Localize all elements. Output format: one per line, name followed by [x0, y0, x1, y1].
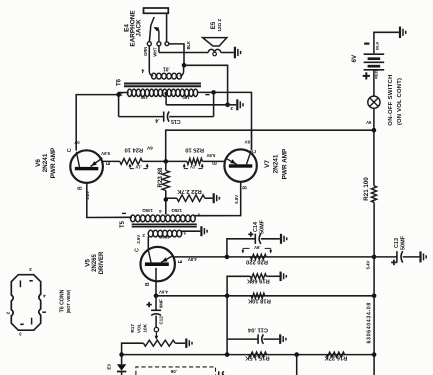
resistor R25: [187, 158, 202, 164]
label plus: [363, 75, 370, 77]
svg-text:C12: C12: [159, 316, 164, 325]
svg-text:.06: .06: [170, 369, 177, 374]
ground R22: [213, 193, 215, 203]
svg-text:4: 4: [141, 67, 144, 73]
dashed component box: [136, 367, 216, 375]
capacitor C11: [257, 334, 259, 344]
volume control wiper: [154, 327, 158, 331]
ground pin3: [236, 99, 238, 110]
svg-text:V6: V6: [35, 159, 42, 167]
svg-text:R17: R17: [130, 324, 135, 333]
resistor R20: [251, 254, 267, 259]
pin 1 lead: [198, 91, 214, 93]
svg-text:6V: 6V: [351, 54, 358, 62]
resistor R16: [326, 352, 344, 357]
wire V7 collector: [251, 130, 253, 150]
svg-text:R23 68: R23 68: [157, 167, 164, 188]
label 1: [42, 311, 46, 313]
svg-text:GRN: GRN: [143, 47, 148, 56]
svg-text:.6V: .6V: [254, 245, 261, 250]
svg-text:5.9V: 5.9V: [206, 153, 215, 158]
svg-text:B: B: [243, 186, 249, 190]
svg-text:C: C: [252, 150, 258, 154]
ground R19: [280, 272, 282, 282]
wire V7 base: [194, 182, 241, 216]
svg-text:6V: 6V: [366, 120, 371, 125]
svg-text:3: 3: [29, 267, 32, 272]
svg-text:(ON VOL CONT): (ON VOL CONT): [397, 78, 403, 125]
label + C14: [248, 233, 253, 235]
jack terminal GRN: [147, 42, 151, 46]
svg-text:630640434-08: 630640434-08: [366, 302, 372, 343]
svg-text:R22 2.7K: R22 2.7K: [176, 188, 201, 194]
svg-text:.1V: .1V: [135, 165, 141, 170]
pin 2 lead: [119, 93, 129, 117]
svg-text:5.8V: 5.8V: [234, 195, 239, 204]
capacitor C14: [227, 239, 255, 257]
wire BLK sleeve: [169, 44, 184, 65]
T5 core: [132, 223, 197, 225]
svg-text:JACK: JACK: [136, 19, 143, 37]
voltage bracket .1V left: [130, 168, 134, 170]
jack terminal sleeve BLK: [165, 42, 169, 46]
svg-text:50MF: 50MF: [260, 219, 266, 234]
T6 core: [124, 83, 201, 85]
node R15 junction: [225, 352, 230, 357]
label + C13: [391, 261, 397, 263]
resistor R15: [249, 352, 267, 357]
svg-text:R15 1.5K: R15 1.5K: [244, 355, 269, 361]
wire column to bottom: [373, 257, 375, 375]
voltage bracket .6V: [243, 247, 250, 249]
wire pin1 to V7 collector: [214, 92, 252, 149]
on-off switch: [368, 96, 380, 108]
svg-text:BLK: BLK: [186, 41, 191, 49]
capacitor C13: [374, 256, 396, 258]
node R19/C11 junction: [225, 294, 230, 299]
svg-text:BLK: BLK: [374, 41, 379, 49]
T5 primary winding: [148, 230, 153, 237]
resistor R24: [120, 158, 143, 164]
node junction: [294, 352, 299, 357]
ground battery: [399, 27, 401, 39]
resistor R19: [227, 276, 250, 296]
svg-text:3: 3: [230, 105, 233, 111]
speaker E5 cone: [203, 38, 227, 46]
T5 primary left lead: [147, 237, 149, 250]
svg-text:C13: C13: [394, 238, 400, 248]
svg-text:DRIVER: DRIVER: [99, 251, 105, 274]
transistor V5: [141, 247, 175, 281]
resistor R22: [166, 197, 177, 199]
node junction: [225, 103, 230, 108]
svg-text:R18 10K: R18 10K: [247, 298, 271, 304]
svg-text:4.6V: 4.6V: [159, 290, 168, 295]
speaker voice coil: [208, 49, 214, 52]
wire WHT terminal to speaker: [158, 46, 160, 53]
svg-text:135Ω: 135Ω: [142, 208, 153, 213]
svg-text:R24 10: R24 10: [124, 146, 143, 152]
wire pot left: [122, 343, 144, 354]
svg-text:.01: .01: [163, 65, 170, 71]
svg-text:B: B: [78, 186, 84, 190]
wire speaker to ground: [221, 52, 234, 54]
ground R17: [185, 338, 187, 348]
svg-text:PWR AMP: PWR AMP: [282, 148, 289, 179]
jack contact arm: [149, 17, 154, 42]
svg-text:T6 CONN: T6 CONN: [59, 289, 65, 312]
svg-text:T5: T5: [120, 220, 126, 228]
transistor V6: [70, 150, 103, 183]
wire V6 base: [87, 183, 132, 218]
voltage bracket .1V right: [184, 168, 188, 170]
svg-text:5.9V: 5.9V: [101, 151, 110, 156]
svg-text:2N241: 2N241: [273, 154, 280, 173]
node E3 junction: [119, 352, 124, 357]
svg-text:2: 2: [5, 311, 10, 314]
diode E3: [121, 355, 123, 365]
svg-text:ON-OFF SWITCH: ON-OFF SWITCH: [388, 74, 394, 125]
svg-text:C: C: [135, 248, 141, 252]
capacitor C15: [163, 112, 165, 122]
ground C13: [419, 251, 421, 262]
label pin 1: [205, 94, 209, 96]
ground C11: [279, 334, 281, 344]
jack terminal WHT: [157, 42, 161, 46]
node junction: [182, 63, 187, 68]
T6 center tap to ground: [164, 92, 167, 95]
svg-text:2: 2: [120, 91, 123, 97]
svg-text:50MF: 50MF: [401, 235, 407, 250]
svg-text:6MF: 6MF: [159, 299, 164, 308]
transformer T6 secondary winding: [148, 46, 150, 72]
svg-text:135Ω: 135Ω: [171, 208, 182, 213]
svg-text:R20 220: R20 220: [246, 259, 268, 265]
node junction pin1: [211, 90, 216, 95]
wire switch to 6V rail: [373, 108, 375, 130]
svg-text:190: 190: [182, 95, 190, 100]
svg-text:600Ω: 600Ω: [158, 234, 169, 239]
svg-text:T6: T6: [117, 78, 123, 86]
node junction pin2: [116, 92, 121, 97]
svg-text:6V: 6V: [146, 144, 153, 150]
svg-text:VOL: VOL: [137, 323, 142, 333]
connector pin marks: [19, 280, 21, 287]
wire base line: [156, 295, 374, 297]
battery 6V: [364, 53, 385, 55]
svg-text:4: 4: [43, 294, 46, 299]
svg-text:2N265: 2N265: [92, 254, 98, 272]
svg-text:WHT: WHT: [153, 47, 158, 57]
wire V6 collector: [76, 95, 118, 151]
earphone jack E4 body: [144, 8, 169, 13]
label + C12: [146, 304, 151, 306]
svg-text:.1V: .1V: [190, 165, 196, 170]
svg-text:5.4V: 5.4V: [366, 260, 371, 269]
svg-text:B: B: [145, 282, 151, 286]
capacitor C12: [155, 296, 157, 310]
wire V5 base: [155, 268, 157, 296]
ground T5: [200, 226, 202, 236]
resistor R21: [371, 186, 376, 203]
svg-text:V5: V5: [84, 259, 91, 267]
wire C15: [119, 116, 164, 118]
wire supply column: [373, 130, 375, 186]
node 6V junction: [164, 159, 169, 164]
wire 6V rail: [166, 130, 374, 161]
svg-text:190: 190: [140, 95, 148, 100]
T5 primary right lead to ground: [182, 231, 201, 234]
label minus: [364, 42, 369, 44]
wire V6 emitter: [102, 160, 120, 162]
wire R19 to ground: [266, 275, 279, 277]
transistor V7: [224, 149, 256, 181]
capacitor at box edge: [218, 371, 220, 375]
ground speaker: [234, 47, 236, 59]
node V5 base: [154, 294, 159, 299]
svg-text:10K: 10K: [143, 323, 148, 332]
label pin 1: [122, 212, 126, 214]
node 5.4V junction: [372, 255, 377, 260]
svg-text:C11 .04: C11 .04: [247, 327, 268, 333]
T5 secondary winding: [130, 215, 135, 222]
node C14 junction: [225, 255, 230, 260]
svg-text:.4: .4: [155, 117, 159, 123]
svg-text:R21 100: R21 100: [363, 177, 370, 201]
T6 primary winding: [128, 89, 132, 96]
wire battery to switch: [373, 70, 375, 96]
svg-text:C15: C15: [171, 118, 181, 124]
svg-text:R25 10: R25 10: [185, 146, 204, 152]
node at supply column: [372, 294, 377, 299]
node junction: [372, 352, 377, 357]
svg-text:2N241: 2N241: [42, 153, 49, 172]
svg-text:12Ω Z: 12Ω Z: [217, 19, 222, 32]
svg-text:(BOT VIEW): (BOT VIEW): [66, 289, 71, 313]
wire C11 branch: [226, 296, 228, 355]
resistor R23: [165, 161, 167, 170]
svg-text:R16 27K: R16 27K: [324, 355, 348, 361]
connector T6 outline: [11, 275, 40, 331]
potentiometer R17: [143, 340, 175, 346]
wire battery to ground: [374, 32, 399, 53]
svg-text:V7: V7: [264, 160, 271, 168]
svg-text:3: 3: [19, 332, 22, 337]
svg-text:PWR AMP: PWR AMP: [50, 147, 57, 178]
svg-text:2.6V: 2.6V: [136, 235, 141, 244]
svg-text:E3: E3: [107, 364, 112, 370]
wire to ground drop: [184, 65, 228, 105]
node R22 junction: [164, 197, 169, 202]
wire 5.4V rail: [175, 256, 375, 258]
svg-text:6V: 6V: [245, 139, 250, 144]
ground C14: [280, 234, 282, 244]
jack wiper arrow: [157, 28, 159, 41]
wire bottom line: [122, 354, 375, 356]
svg-text:C: C: [67, 148, 73, 152]
svg-text:C14: C14: [253, 221, 259, 232]
svg-text:R19 68K: R19 68K: [246, 278, 270, 284]
node 6V junction: [372, 128, 377, 133]
wire pot right to ground: [175, 342, 185, 344]
svg-text:0V: 0V: [74, 140, 79, 145]
resistor R18: [251, 293, 265, 298]
